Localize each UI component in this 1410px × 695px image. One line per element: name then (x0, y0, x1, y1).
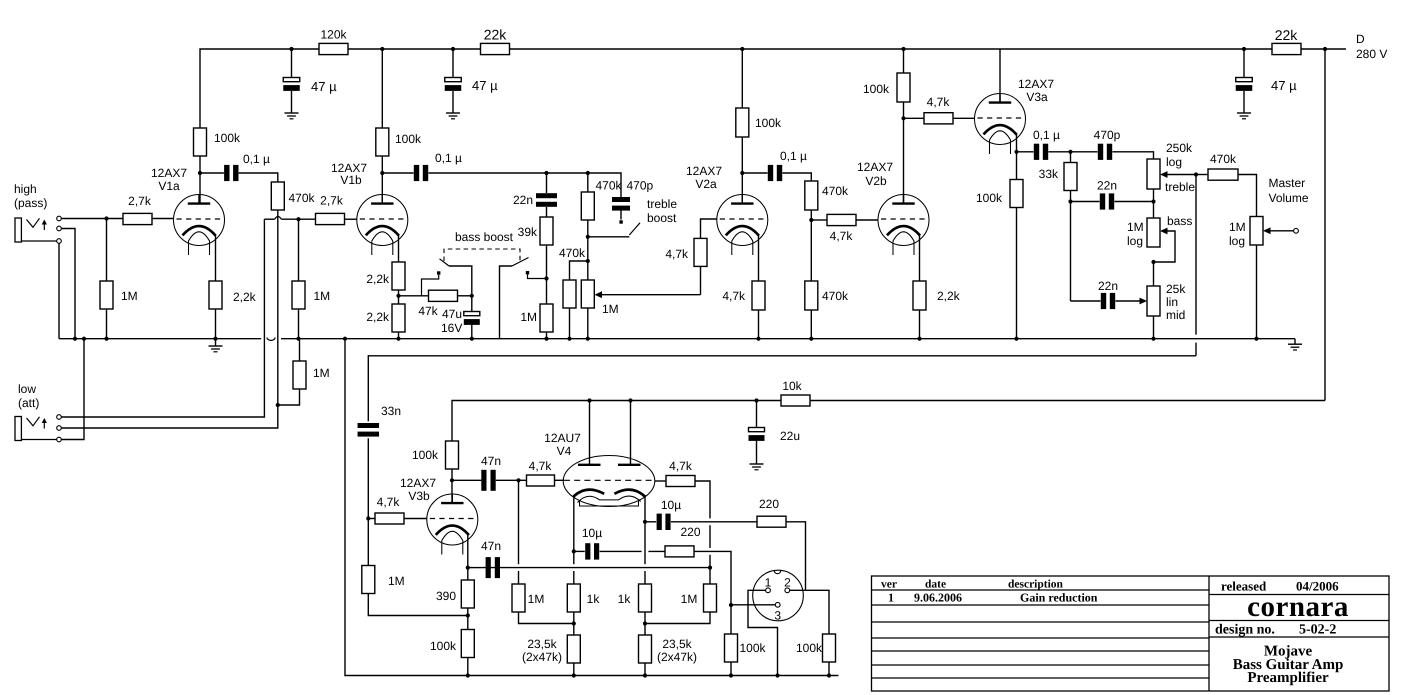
wire 470k top (587, 173, 589, 192)
wire 1M V1b top (298, 219, 300, 281)
wire master gnd (1256, 245, 1258, 339)
svg-text:100k: 100k (412, 448, 439, 462)
resistor 23,5k R (639, 635, 652, 663)
junction 100k L gnd (729, 673, 733, 677)
wire vol pot top (587, 261, 589, 280)
wire V3b cathode (467, 534, 469, 581)
resistor 1M V1b (292, 281, 305, 309)
capacitor 0,1u V3a out (1034, 144, 1048, 160)
wire B+ rail lower (452, 401, 781, 442)
junction rail V2a (740, 47, 744, 51)
junction 100k R gnd (827, 673, 831, 677)
svg-text:(2x47k): (2x47k) (522, 650, 562, 664)
svg-text:4,7k: 4,7k (529, 459, 553, 473)
junction V2a plate node (740, 171, 744, 175)
junction V2b plate node (901, 116, 905, 120)
wire 1M V1a bottom (106, 309, 108, 339)
wire treble-bass (1153, 189, 1155, 218)
wire 100k L top (730, 605, 732, 634)
svg-text:log: log (1166, 155, 1182, 169)
svg-text:47n: 47n (481, 454, 501, 468)
wire 4,7k V4R in (655, 480, 667, 482)
junction low sleeve gnd (82, 337, 86, 341)
svg-text:(att): (att) (18, 396, 39, 410)
resistor 470k to gnd (563, 280, 576, 308)
junction 390 100k (466, 613, 470, 617)
junction V3a gnd (1014, 337, 1018, 341)
svg-text:(pass): (pass) (14, 196, 47, 210)
wire 100k L gnd (730, 662, 732, 676)
wire 0,1u V1b out (428, 173, 621, 199)
wire 2,7k V1b out (345, 218, 357, 220)
wire 47u16V bottom (471, 325, 473, 339)
svg-text:2,2k: 2,2k (233, 290, 257, 304)
resistor 4,7k V4 gridL (527, 475, 555, 486)
resistor 220 lower (665, 546, 694, 557)
junction rail 47u-2 (451, 47, 455, 51)
resistor 4,7k V2a grid (694, 238, 707, 266)
svg-text:0,1 µ: 0,1 µ (780, 149, 807, 163)
junction rail V2b (901, 47, 905, 51)
wire V2b 100k top (903, 49, 905, 73)
svg-text:1M: 1M (1229, 220, 1246, 234)
svg-text:mid: mid (1166, 308, 1185, 322)
svg-text:high: high (14, 182, 37, 196)
svg-text:10µ: 10µ (582, 526, 602, 540)
junction 470k chain top (586, 171, 590, 175)
capacitor 47u no.1 (283, 78, 300, 91)
wire 22u top (756, 401, 758, 428)
junction V4 plate R rail (628, 398, 632, 402)
junction mid gnd (1151, 337, 1155, 341)
wire 23,5k R gnd (644, 663, 646, 676)
resistor 4,7k V2a cathode (752, 281, 765, 310)
wire 0,1u V3a in (1017, 151, 1034, 153)
svg-text:47n: 47n (481, 539, 501, 553)
resistor 470k master (1208, 169, 1238, 180)
wire 0,1u V2a out (782, 173, 811, 181)
capacitor 470p trebleboost (612, 197, 630, 211)
potentiometer 1M master (1250, 217, 1263, 246)
wire 1M chain top (546, 279, 548, 305)
svg-text:1M: 1M (121, 289, 138, 303)
svg-text:treble: treble (1165, 180, 1195, 194)
resistor 1k R (639, 584, 652, 612)
wire V1a plate (199, 156, 201, 203)
wire 470p out (1112, 152, 1153, 159)
wire 1M V4R top (709, 568, 711, 584)
wire 10u lower in (574, 550, 585, 552)
wire 4,7k V2a gnd (758, 310, 760, 339)
switch treble boost contact (619, 220, 622, 223)
junction V1b grid node (296, 217, 300, 221)
capacitor 470p tone (1098, 144, 1112, 160)
resistor 2,7k V1a (123, 213, 152, 224)
resistor 10k (781, 395, 810, 406)
svg-text:0,1 µ: 0,1 µ (1033, 128, 1060, 142)
wire V2b plate (903, 102, 905, 203)
wire V4 cathode L (573, 495, 575, 584)
svg-text:100k: 100k (214, 131, 241, 145)
wire 4,7k V2b out (856, 219, 878, 221)
svg-text:0,1 µ: 0,1 µ (435, 151, 462, 165)
svg-text:470k: 470k (1210, 152, 1237, 166)
resistor 470k chain (581, 192, 594, 220)
wire ground bus upper (59, 338, 1295, 341)
wire 33k bottom (1070, 191, 1072, 202)
wire B+ rail lower right (810, 400, 1325, 402)
wiper 1M volume (595, 291, 701, 298)
svg-text:280 V: 280 V (1356, 47, 1387, 61)
wire 10u upper in (645, 521, 656, 523)
capacitor 47n feedback (486, 557, 500, 578)
wire XLR pin1 (748, 590, 778, 675)
wire 10u lower out (600, 550, 665, 552)
svg-text:250k: 250k (1166, 141, 1193, 155)
resistor 1M V4 gridL (512, 584, 525, 612)
svg-text:12AX7: 12AX7 (400, 476, 436, 490)
ground 22u (750, 464, 764, 470)
svg-text:47 µ: 47 µ (472, 78, 498, 93)
svg-text:design no.: design no. (1215, 623, 1275, 638)
junction 22u node (754, 398, 758, 402)
junction 33k bottom (1068, 199, 1072, 203)
junction V2b grid node (809, 218, 813, 222)
wire 47u-1 top (291, 49, 293, 78)
junction V4 cathodeL 10u (572, 549, 576, 553)
junction pot top (586, 259, 590, 263)
wire V1b plate (381, 156, 383, 203)
svg-text:22k: 22k (484, 27, 508, 43)
junction rail V1b (380, 47, 384, 51)
wiper mid (1115, 298, 1147, 305)
resistor 4,7k V2b grid (827, 214, 856, 225)
svg-text:V3a: V3a (1026, 90, 1048, 104)
capacitor 33n (358, 423, 380, 437)
junction 2,2k V2b gnd (917, 337, 921, 341)
wire V3a grid right (953, 117, 975, 119)
junction V4 plate L rail (587, 398, 591, 402)
wire 0,1u V2a in (742, 172, 767, 174)
resistor 4,7k V4 gridR (666, 476, 695, 487)
wire 1M V4L bottom (519, 612, 574, 624)
ground 47u-1 (285, 113, 299, 119)
svg-text:4,7k: 4,7k (830, 229, 854, 243)
svg-text:V4: V4 (557, 444, 572, 458)
wire 2,2k V1a gnd (215, 309, 217, 339)
svg-text:3: 3 (774, 609, 781, 623)
svg-text:1M: 1M (1127, 220, 1144, 234)
junction treble wiper (1194, 172, 1198, 176)
svg-text:1: 1 (888, 591, 894, 605)
wire V3b grid in (368, 518, 375, 520)
switch bass boost pole B (500, 258, 529, 339)
wire 1M V1a top (106, 219, 108, 282)
junction 47k 47u (470, 294, 474, 298)
wire wiper to 4,7k (700, 266, 702, 294)
resistor 2,2k V2b (913, 281, 926, 310)
wire 100k V3b gnd (467, 658, 469, 676)
wire 22n mid in (1071, 300, 1101, 302)
svg-text:12AX7: 12AX7 (151, 166, 187, 180)
svg-text:100k: 100k (740, 641, 767, 655)
wire 47k out (458, 295, 472, 297)
svg-text:10µ: 10µ (661, 498, 681, 512)
junction vol pot gnd (586, 337, 590, 341)
wire 47u-1 bottom (291, 91, 293, 113)
resistor 100k V1b plate (376, 128, 389, 156)
svg-text:0,1 µ: 0,1 µ (243, 152, 270, 166)
svg-text:Gain reduction: Gain reduction (1020, 591, 1098, 605)
wire V2a plate (741, 137, 743, 203)
svg-text:47 µ: 47 µ (1271, 78, 1297, 93)
wire 470p bottom (620, 208, 622, 219)
resistor 100k XLR L (725, 634, 738, 662)
wire 39k bottom (546, 245, 548, 279)
resistor 4,7k V3b grid (375, 513, 404, 524)
wire 22n-39k (546, 207, 548, 217)
junction V3b cathode fb (466, 566, 470, 570)
svg-text:5-02-2: 5-02-2 (1299, 623, 1336, 638)
capacitor 10u upper (657, 514, 671, 530)
wire 47n out (496, 479, 519, 481)
wire V2b cathode (919, 234, 921, 281)
junction 1M V1b gnd (296, 337, 300, 341)
resistor 4,7k V3a grid (924, 113, 953, 124)
svg-text:bass boost: bass boost (455, 230, 514, 244)
wire 470k2 elbow (570, 261, 588, 280)
potentiometer 1M bass (1147, 218, 1160, 247)
junction 2,2k V1b gnd (396, 337, 400, 341)
jack high (15, 216, 61, 243)
wire 0,1u V1b in (382, 172, 413, 174)
junction 23,5k R gnd (643, 673, 647, 677)
wire V3a plate (999, 49, 1001, 103)
wire 220 upper out (786, 522, 806, 591)
wire feedback left (468, 567, 482, 569)
wire V1b cathode (398, 234, 400, 262)
svg-text:100k: 100k (976, 191, 1003, 205)
wire 22n top (546, 173, 548, 193)
wire B+ drop (1324, 49, 1326, 401)
svg-text:470p: 470p (627, 179, 654, 193)
resistor 33k (1064, 163, 1077, 191)
svg-text:treble: treble (647, 197, 677, 211)
svg-text:390: 390 (436, 589, 456, 603)
svg-text:47u: 47u (442, 307, 462, 321)
svg-text:1: 1 (765, 576, 772, 590)
resistor 100k V2a plate (736, 108, 749, 137)
resistor 470k V2a bottom (805, 281, 818, 310)
svg-text:100k: 100k (395, 132, 422, 146)
wire 4,7k V2b in (811, 219, 827, 221)
capacitor 47u no.2 (445, 78, 462, 91)
svg-text:1M: 1M (313, 366, 330, 380)
svg-text:Master: Master (1269, 176, 1306, 190)
resistor 100k XLR R (823, 634, 836, 662)
junction 1kR 23k (643, 621, 647, 625)
resistor 1M att (293, 361, 306, 389)
svg-text:Preamplifier: Preamplifier (1247, 670, 1329, 686)
junction lower bus tap (343, 337, 347, 341)
wire 33k down (1070, 202, 1072, 302)
svg-text:D: D (1356, 32, 1365, 46)
wire 1k L top (573, 583, 575, 585)
svg-text:23,5k: 23,5k (527, 637, 557, 651)
wire V1b grid hop (264, 218, 274, 220)
ground 47u-3 (1237, 113, 1251, 119)
wire 47k in (399, 295, 429, 297)
wire 4,7k V4L in (519, 479, 527, 481)
junction rail 47u-3 (1242, 47, 1246, 51)
wire 1M V1b bottom (298, 309, 300, 339)
wire V2a 100k top (741, 49, 743, 108)
wire 220 lower out (694, 551, 731, 605)
junction treble bottom (1151, 199, 1155, 203)
svg-text:100k: 100k (863, 82, 890, 96)
wire 470k bottom (587, 220, 589, 237)
wire low ring (61, 405, 277, 428)
wire V4 plate R (630, 401, 632, 465)
junction rail B+ drop (1323, 47, 1327, 51)
ground 47u-2 (446, 113, 460, 119)
wire 47n in (452, 479, 481, 481)
wire 470k V2a low top (810, 220, 812, 281)
resistor 470k V1a out (271, 182, 284, 210)
svg-text:1M: 1M (314, 289, 331, 303)
wire low tip (61, 219, 264, 417)
triode V2b (878, 195, 929, 256)
wire 22n bass in (1071, 201, 1100, 203)
resistor 2,2k V1a (209, 281, 222, 309)
junction 100k V3b gnd (466, 673, 470, 677)
junction master gnd (1254, 337, 1258, 341)
resistor 100k V3b plate (446, 441, 459, 469)
junction high ring gnd (73, 337, 77, 341)
junction V4 grid L node (516, 478, 520, 482)
capacitor 22n mid (1101, 293, 1115, 309)
capacitor 22n bass (1100, 193, 1114, 209)
wire 4,7k to V2a grid (701, 219, 717, 238)
junction V3b grid node (366, 516, 370, 520)
wire XLR pin2 (790, 590, 829, 634)
wire 47u-3 bottom (1243, 91, 1245, 113)
wire V3a 100k gnd (1016, 208, 1018, 339)
wire XLR pin3 (731, 604, 775, 606)
svg-text:1M: 1M (528, 592, 545, 606)
svg-text:470p: 470p (1094, 128, 1121, 142)
title block table (872, 576, 1390, 691)
svg-text:100k: 100k (796, 641, 823, 655)
wire vol pot gnd (587, 308, 589, 339)
wire 2,2k mid (398, 290, 400, 304)
wire 22u bottom (756, 441, 758, 464)
wire 2,7k V1a out (152, 218, 174, 220)
resistor 100k V3a cathode (1010, 180, 1023, 208)
svg-text:33n: 33n (381, 404, 401, 418)
resistor 47k (429, 290, 458, 301)
resistor 120k (319, 43, 348, 54)
wire V4 plate L (589, 401, 591, 465)
triode V3b (427, 494, 478, 555)
wire feedback line (481, 567, 499, 569)
svg-text:2,2k: 2,2k (937, 289, 961, 303)
svg-text:log: log (1229, 234, 1245, 248)
svg-text:1k: 1k (618, 592, 632, 606)
wire treble sw (588, 236, 630, 238)
svg-text:boost: boost (647, 211, 677, 225)
wire low ring up (277, 210, 279, 405)
switch bass boost pole A (440, 259, 472, 296)
svg-text:2,7k: 2,7k (320, 194, 344, 208)
junction V3a cathode (1014, 150, 1018, 154)
wire V3b grid out (404, 518, 427, 520)
wire V2a cathode (758, 234, 760, 281)
wire 1M chain gnd (546, 332, 548, 339)
junction 470k2 gnd (567, 337, 571, 341)
svg-text:9.06.2006: 9.06.2006 (914, 591, 962, 605)
wire V3a grid left (904, 117, 925, 119)
wire V3a cathode (1016, 133, 1018, 152)
triode V3a (975, 94, 1026, 155)
capacitor 0,1u V2a out (768, 165, 782, 181)
wire 1M V3b bottom (368, 594, 468, 616)
svg-text:39k: 39k (518, 225, 538, 239)
wire 0,1u V3a out (1048, 151, 1070, 153)
resistor 23,5k L (567, 635, 580, 663)
switch treble boost blade (629, 223, 640, 235)
svg-text:cornara: cornara (1247, 591, 1349, 623)
svg-text:100k: 100k (430, 639, 457, 653)
wire 0,1u V1a in (200, 172, 224, 174)
svg-text:470k: 470k (596, 179, 623, 193)
junction V1b cathode mid (396, 294, 400, 298)
junction 2,2k V1a gnd (213, 337, 217, 341)
wire 47u16V top (471, 296, 473, 312)
svg-text:(2x47k): (2x47k) (657, 650, 697, 664)
junction rail 47u-1 (289, 47, 293, 51)
svg-text:4,7k: 4,7k (377, 495, 401, 509)
wire V1a cathode (215, 234, 217, 281)
svg-text:25k: 25k (1166, 282, 1186, 296)
wire 470k master out (1238, 175, 1257, 217)
wiper bass (1154, 228, 1176, 262)
junction low ring 1M (276, 403, 280, 407)
triode V1b (357, 195, 408, 256)
resistor 100k V3b cathode (461, 630, 474, 658)
wire 470k master in (1196, 174, 1208, 176)
resistor 100k V1a plate (194, 128, 207, 156)
capacitor 47n coupling (481, 470, 495, 491)
svg-text:log: log (1127, 234, 1143, 248)
junction 22n chain top (544, 171, 548, 175)
svg-text:2,7k: 2,7k (128, 194, 152, 208)
switch bass boost contact A (422, 271, 441, 296)
resistor 2,7k V1b (316, 213, 345, 224)
resistor 220 upper (757, 516, 786, 527)
junction 1M V1a gnd (104, 337, 108, 341)
connector XLR (753, 570, 804, 621)
junction bass bottom (1151, 260, 1155, 264)
junction 33k top (1068, 150, 1072, 154)
svg-text:lin: lin (1166, 295, 1178, 309)
wire treble signal across (368, 356, 1196, 422)
wire high sleeve (58, 243, 60, 338)
wiper master volume (1263, 227, 1298, 234)
junction V4 cathodeR 10u (643, 520, 647, 524)
svg-text:22n: 22n (513, 193, 533, 207)
svg-text:V1b: V1b (340, 173, 362, 187)
